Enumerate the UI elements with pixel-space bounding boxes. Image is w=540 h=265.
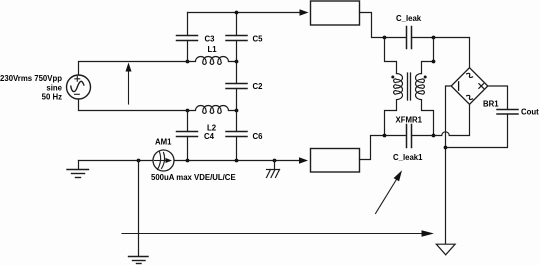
svg-text:C6: C6 [253,132,264,141]
capacitor Cout [497,110,518,115]
chassis ground [267,161,280,178]
transformer XFMR1 [391,73,426,100]
wire block1 output [360,13,407,38]
earth ground bottom [129,257,149,264]
wire bridge right to Cout [488,86,508,110]
svg-text:C3: C3 [205,35,216,44]
svg-text:BR1: BR1 [483,100,499,109]
svg-text:230Vrms 750Vpp: 230Vrms 750Vpp [0,74,62,83]
wire source top to rail [79,62,188,76]
node corner dot [432,60,436,64]
svg-text:50 Hz: 50 Hz [42,92,62,101]
node S2 (secondary bottom) [432,134,436,138]
svg-text:C4: C4 [204,132,215,141]
capacitor C6 [226,111,247,161]
wire bottom vertical to ground [138,161,140,257]
node H (chassis gnd junction) [273,159,277,163]
block U1 (top meter block) [311,1,360,25]
svg-text:sine: sine [46,83,62,92]
svg-text:XFMR1: XFMR1 [396,115,423,124]
node E junction to bottom [137,159,141,163]
node F (C4 bottom junction) [186,159,190,163]
svg-text:C_leak: C_leak [396,14,422,23]
block U2 (bottom meter block) [311,149,360,173]
capacitor C2 [226,62,247,111]
top wire to block [188,12,301,14]
wire secondary bottom row with hop [412,104,470,135]
ammeter AM1 [153,150,174,171]
arrow into block1 [300,9,309,16]
svg-text:L1: L1 [208,45,218,54]
svg-text:C2: C2 [253,82,264,91]
capacitor C_leak1 [407,125,412,148]
capacitor C5 [226,13,247,62]
arrow into block2 [299,157,308,164]
wire secondary bottom [422,100,434,136]
source label 230Vrms 750Vpp sine 50 Hz [0,74,63,102]
inductor L1 [188,57,237,65]
node B (L1 right junction) [235,60,239,64]
annotation diagonal arrow [376,170,403,213]
wire source bottom to lower rail [79,99,188,111]
node S1 (secondary top) [432,36,436,40]
earth ground left [67,161,89,178]
wire bridge left to ground rail [446,86,452,244]
svg-text:C5: C5 [253,35,264,44]
svg-text:AM1: AM1 [155,137,172,146]
capacitor C_leak [407,27,470,68]
wire primary bottom [385,100,397,136]
wire block2 output [360,136,407,160]
bridge rectifier BR1 [451,68,488,105]
wire return row [446,114,508,148]
svg-text:Cout: Cout [521,108,539,117]
annotation voltage arrow [126,63,132,105]
node D (L2 right junction) [235,109,239,113]
node top junction [235,11,239,15]
node G (C6 bottom junction) [235,159,239,163]
wire secondary top [422,38,434,74]
capacitor C3 [177,13,198,62]
node C (L2 left junction) [186,109,190,113]
svg-text:500uA max VDE/UL/CE: 500uA max VDE/UL/CE [151,173,236,182]
node P2 (primary bottom) [383,134,387,138]
svg-text:C_leak1: C_leak1 [393,153,423,162]
node A (L1 left junction) [186,60,190,64]
voltage source VG1 [67,75,91,99]
capacitor C4 [177,111,198,161]
annotation bottom arrow [122,230,434,236]
wire primary top [385,38,397,74]
node P1 (primary top) [383,36,387,40]
triangle ground [436,244,455,255]
node return junction [444,146,448,150]
inductor L2 [188,106,237,114]
wire AM1 rail [79,160,301,162]
